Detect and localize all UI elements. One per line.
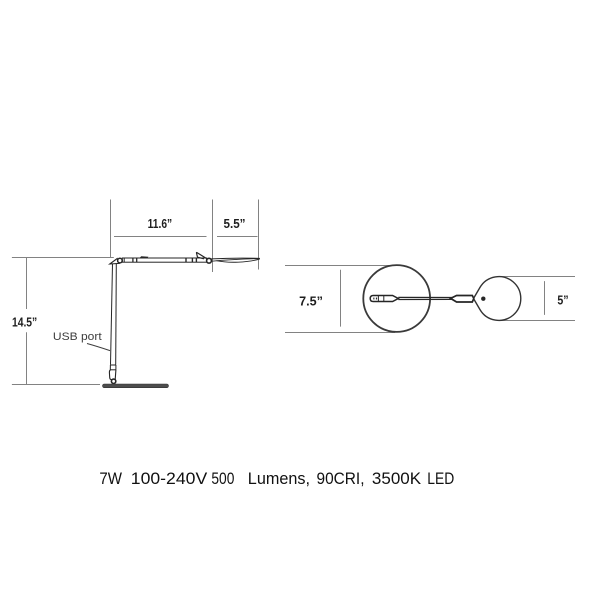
svg-text:500: 500: [211, 470, 234, 488]
svg-text:USB port: USB port: [53, 331, 102, 343]
svg-text:3500K: 3500K: [372, 470, 421, 488]
svg-text:LED: LED: [427, 470, 454, 488]
svg-text:5”: 5”: [557, 292, 568, 307]
svg-text:11.6”: 11.6”: [148, 216, 173, 231]
svg-text:100-240V: 100-240V: [131, 470, 207, 488]
svg-text:Lumens,: Lumens,: [248, 470, 310, 488]
svg-text:14.5”: 14.5”: [12, 315, 37, 330]
svg-text:5.5”: 5.5”: [224, 216, 246, 231]
svg-text:7.5”: 7.5”: [299, 293, 323, 308]
svg-text:7W: 7W: [99, 470, 122, 488]
svg-text:90CRI,: 90CRI,: [317, 470, 365, 488]
